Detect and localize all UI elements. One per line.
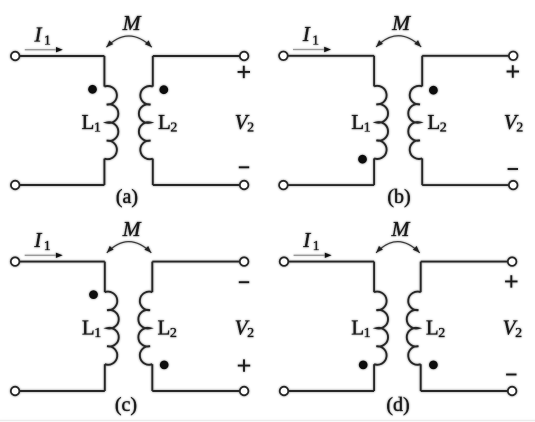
wire: top-right conductor circuit (a) [153,55,244,57]
svg-text:L: L [351,110,364,134]
inductor L1 circuit (c) with lead wires [104,262,106,293]
terminal top-left circuit (b) [279,52,288,61]
wire: top-left conductor circuit (a) [15,55,104,57]
terminal bottom-left circuit (b) [279,181,288,190]
polarity dot of L2 circuit (d) [429,361,438,370]
polarity dot of L2 circuit (b) [429,86,438,95]
mutual inductance arrow M circuit (b) [376,36,421,47]
current arrow I1 circuit (d) [294,254,325,256]
terminal bottom-right circuit (c) [240,387,249,396]
svg-text:(a): (a) [116,186,138,208]
polarity minus sign circuit (a) [239,166,249,168]
svg-text:M: M [122,11,142,35]
svg-text:1: 1 [364,120,371,135]
svg-text:1: 1 [364,326,371,341]
wire: top-left conductor circuit (c) [15,261,105,263]
wire: top-right conductor circuit (d) [421,261,512,263]
polarity minus sign circuit (d) [506,374,516,376]
current arrow I1 circuit (c) [25,254,56,256]
svg-text:I: I [33,228,42,252]
wire: bottom-left conductor circuit (c) [15,390,105,392]
wire: bottom-right conductor circuit (b) [422,184,513,186]
svg-text:2: 2 [170,121,177,136]
svg-text:L: L [82,316,95,340]
terminal bottom-right circuit (a) [240,181,249,190]
svg-text:I: I [302,22,311,46]
inductor L1 circuit (a) with lead wires [103,56,105,87]
polarity plus sign circuit (d) [505,275,517,287]
svg-text:2: 2 [515,326,522,341]
svg-text:(b): (b) [387,186,410,208]
wire: bottom-right conductor circuit (d) [421,390,512,392]
terminal bottom-left circuit (d) [280,387,289,396]
polarity dot of L1 circuit (b) [358,155,367,164]
svg-text:L: L [82,110,95,134]
polarity minus sign circuit (c) [239,281,249,283]
terminal top-right circuit (d) [508,257,517,266]
svg-text:2: 2 [247,326,254,341]
svg-text:(c): (c) [115,394,137,416]
polarity plus sign circuit (b) [507,65,519,77]
wire: bottom-right conductor circuit (c) [152,390,244,392]
svg-text:L: L [426,316,439,340]
svg-text:1: 1 [44,33,51,48]
polarity plus sign circuit (c) [238,359,250,371]
svg-text:L: L [158,110,171,134]
wire: top-left conductor circuit (b) [283,55,374,57]
mutual inductance arrow M circuit (c) [107,242,152,253]
polarity dot of L1 circuit (d) [359,361,368,370]
svg-text:2: 2 [516,120,523,135]
wire: bottom-left conductor circuit (b) [283,184,374,186]
inductor L2 circuit (d) with lead wires [420,262,422,293]
terminal bottom-left circuit (a) [11,181,20,190]
wire: bottom-left conductor circuit (d) [284,390,374,392]
polarity dot of L1 circuit (a) [88,85,97,94]
svg-text:M: M [390,217,410,241]
svg-text:1: 1 [313,238,320,253]
svg-text:I: I [302,228,311,252]
svg-text:L: L [427,110,440,134]
svg-text:M: M [122,217,142,241]
current arrow I1 circuit (b) [293,49,324,51]
inductor L1 circuit (d) with lead wires [373,262,375,293]
svg-text:2: 2 [438,326,445,341]
faint bottom edge line [0,420,535,422]
polarity dot of L2 circuit (c) [160,361,169,370]
inductor L1 circuit (b) with lead wires [373,56,375,87]
svg-text:1: 1 [94,121,101,136]
current arrow I1 circuit (a) [25,49,56,51]
svg-text:I: I [34,22,43,46]
wire: bottom-right conductor circuit (a) [153,184,244,186]
svg-text:M: M [391,11,411,35]
mutual inductance arrow M circuit (d) [376,242,420,253]
svg-text:2: 2 [170,326,177,341]
wire: top-right conductor circuit (c) [152,261,244,263]
terminal top-left circuit (c) [11,257,20,266]
terminal bottom-left circuit (c) [11,387,20,396]
svg-text:(d): (d) [386,394,409,416]
svg-text:1: 1 [312,32,319,47]
wire: bottom-left conductor circuit (a) [15,184,104,186]
polarity minus sign circuit (b) [508,168,518,170]
terminal top-right circuit (b) [509,52,518,61]
inductor L2 circuit (c) with lead wires [151,262,153,293]
terminal top-left circuit (a) [11,52,20,61]
terminal bottom-right circuit (b) [509,181,518,190]
wire: top-right conductor circuit (b) [422,55,513,57]
mutual inductance arrow M circuit (a) [106,36,151,47]
svg-text:L: L [158,316,171,340]
wire: top-left conductor circuit (d) [284,261,374,263]
terminal top-right circuit (c) [240,257,249,266]
svg-text:2: 2 [247,121,254,136]
svg-text:L: L [351,316,364,340]
polarity dot of L1 circuit (c) [89,290,98,299]
svg-text:2: 2 [440,120,447,135]
terminal bottom-right circuit (d) [508,387,517,396]
svg-text:1: 1 [44,238,51,253]
inductor L2 circuit (a) with lead wires [152,56,154,87]
polarity dot of L2 circuit (a) [159,85,168,94]
svg-text:1: 1 [94,326,101,341]
terminal top-right circuit (a) [240,52,249,61]
polarity plus sign circuit (a) [238,66,250,78]
inductor L2 circuit (b) with lead wires [421,56,423,87]
terminal top-left circuit (d) [280,257,289,266]
